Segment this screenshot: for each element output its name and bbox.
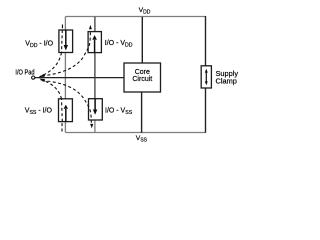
svg-text:VSS - I/O: VSS - I/O <box>25 108 53 117</box>
svg-text:I/O - VSS: I/O - VSS <box>105 107 133 116</box>
svg-text:VDD - I/O: VDD - I/O <box>25 40 53 49</box>
svg-text:I/O Pad: I/O Pad <box>15 70 34 77</box>
svg-text:Clamp: Clamp <box>216 77 237 86</box>
svg-text:Circuit: Circuit <box>132 76 152 83</box>
svg-text:VSS: VSS <box>136 135 148 144</box>
svg-text:I/O - VDD: I/O - VDD <box>105 40 133 49</box>
svg-text:VDD: VDD <box>139 7 151 16</box>
